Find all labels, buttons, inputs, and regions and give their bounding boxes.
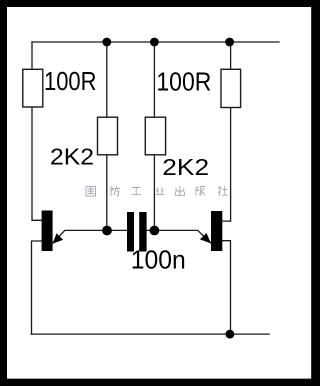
svg-text:2K2: 2K2	[50, 144, 94, 170]
svg-text:2K2: 2K2	[162, 154, 209, 180]
svg-text:100R: 100R	[44, 66, 97, 96]
svg-text:100R: 100R	[156, 66, 211, 96]
svg-text:100n: 100n	[131, 245, 186, 275]
